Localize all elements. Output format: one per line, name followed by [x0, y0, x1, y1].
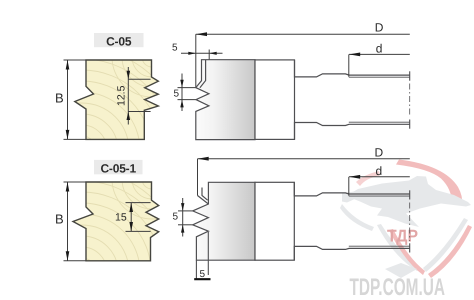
- shaft end cap + centerline top tool: [409, 71, 411, 128]
- wood piece top panel: [0, 17, 192, 252]
- shaft bottom tool: [294, 182, 409, 260]
- extension line for d bottom: [348, 177, 350, 196]
- dimension 5 left pitch bottom tool: [178, 198, 193, 237]
- svg-text:D: D: [375, 146, 384, 160]
- knife bottom projection + dimension 5 bottom tool: [196, 232, 208, 279]
- knife top diagonal + inner slot: [198, 188, 209, 205]
- svg-text:5: 5: [172, 43, 178, 54]
- svg-text:C-05: C-05: [106, 34, 132, 48]
- watermark shield: left red wisp: [356, 171, 380, 186]
- label C-05-1: [94, 160, 143, 176]
- dimension D top tool: [196, 33, 410, 35]
- svg-text:TDP.COM.UA: TDP.COM.UA: [350, 274, 446, 300]
- wood piece bottom panel: [0, 139, 192, 300]
- svg-text:d: d: [376, 42, 383, 56]
- svg-text:15: 15: [115, 212, 127, 224]
- label C-05: [94, 33, 144, 48]
- watermark gray bottom diamond: [385, 263, 417, 278]
- shaft top tool: [295, 60, 410, 139]
- svg-text:C-05-1: C-05-1: [100, 162, 136, 176]
- watermark left swoosh: [340, 204, 374, 231]
- dimension d bottom tool: [349, 176, 410, 178]
- svg-text:5: 5: [173, 212, 179, 223]
- dimension B bottom panel: [64, 182, 87, 261]
- watermark inner V gray: [377, 224, 420, 271]
- svg-text:D: D: [375, 21, 384, 35]
- watermark red V: [389, 229, 425, 275]
- svg-text:B: B: [55, 212, 64, 227]
- dimension d top tool: [349, 53, 410, 55]
- watermark shield: red top-right band: [340, 160, 472, 300]
- extension line D bottom (to knife corner): [197, 159, 199, 196]
- svg-text:B: B: [55, 91, 64, 106]
- shaft end cap + centerline bottom tool: [409, 190, 411, 252]
- dimension 12.5 top panel: [128, 67, 150, 125]
- svg-text:5: 5: [174, 89, 180, 100]
- dimension 5 top (cut depth): [181, 34, 223, 87]
- cutter head top tool: [196, 60, 255, 140]
- svg-text:ТДР: ТДР: [387, 227, 418, 246]
- knife slot inner line: [200, 60, 206, 88]
- svg-text:12.5: 12.5: [115, 85, 127, 106]
- extension line for d top: [348, 54, 350, 76]
- dimension 15 bottom panel: [126, 203, 151, 232]
- cutter head bottom tool: [193, 182, 255, 260]
- watermark shark jaw: [342, 192, 357, 203]
- hub bottom tool: [255, 182, 294, 260]
- hub top tool: [255, 60, 295, 139]
- svg-text:d: d: [376, 164, 383, 178]
- watermark shark silhouette: [346, 176, 471, 227]
- dimension 5 left pitch top tool: [178, 74, 197, 112]
- dimension B top panel: [64, 60, 87, 139]
- dimension D bottom tool: [198, 158, 410, 160]
